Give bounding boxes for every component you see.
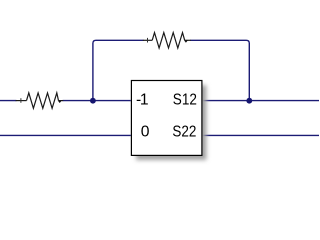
svg-text:S22: S22 — [172, 124, 196, 141]
block U1 drop shadow — [136, 85, 206, 160]
resistor R1 (left, inline on row1) — [16, 93, 64, 108]
resistor R2 right arrow mark — [184, 40, 188, 42]
svg-text:-1: -1 — [136, 91, 148, 108]
resistor R2 polarity tick (+) — [147, 38, 149, 43]
wire row1 mid segment (resistor R1 right tail to block) — [63, 100, 131, 102]
wire: feedback loop left vertical + top-left run — [93, 40, 144, 100]
wire row1 right segment — [203, 100, 319, 102]
resistor R2 (top, inline on feedback loop) — [143, 33, 191, 48]
svg-text:S12: S12 — [173, 91, 197, 108]
resistor R1 polarity tick (+) — [20, 98, 22, 103]
junction node left — [90, 98, 96, 104]
wire row2 left segment — [0, 134, 131, 136]
svg-text:0: 0 — [141, 124, 150, 141]
block U1 body (S-parameters block) — [131, 81, 202, 156]
wire row1 left segment — [0, 100, 16, 102]
wire: feedback loop top-right run + right vertical — [190, 40, 249, 100]
wire row2 right segment — [203, 134, 319, 136]
junction node right — [246, 98, 252, 104]
resistor R1 right arrow mark — [58, 101, 62, 103]
